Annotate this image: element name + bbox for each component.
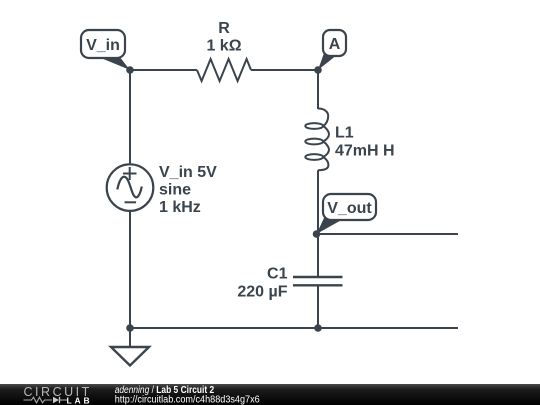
voltage source V_in value label	[159, 164, 217, 216]
voltage source V_in	[107, 164, 154, 211]
CircuitLab logo	[24, 385, 91, 405]
junction capacitor bottom node	[314, 324, 322, 332]
svg-text:L1: L1	[335, 125, 354, 142]
resistor R value label	[206, 20, 241, 55]
footer title	[115, 385, 260, 405]
svg-text:http://circuitlab.com/c4h88d3s: http://circuitlab.com/c4h88d3s4g7x6	[115, 395, 260, 405]
wire right vertical: inductor to V_out node	[317, 170, 319, 234]
wire top right: resistor to node A	[251, 69, 318, 71]
svg-text:V_in 5V: V_in 5V	[159, 164, 217, 181]
wire left vertical: voltage source to ground node	[129, 211, 131, 328]
capacitor C1	[293, 277, 343, 285]
junction V_in node	[126, 66, 134, 74]
inductor L1 value label	[335, 125, 395, 160]
svg-text:220 µF: 220 µF	[237, 284, 287, 301]
node V_out flag	[317, 194, 377, 234]
node V_in flag	[81, 30, 130, 70]
wire left vertical: V_in node to voltage source	[129, 70, 131, 165]
svg-text:1 kΩ: 1 kΩ	[206, 38, 241, 55]
footer bar	[0, 384, 540, 405]
svg-text:V_in: V_in	[86, 37, 120, 54]
capacitor C1 value label	[237, 266, 287, 301]
svg-text:1 kHz: 1 kHz	[159, 199, 201, 216]
svg-text:C1: C1	[267, 266, 288, 283]
wire right vertical: node A to inductor	[317, 70, 319, 109]
inductor L1	[305, 109, 329, 171]
svg-text:sine: sine	[159, 182, 191, 199]
svg-text:LAB: LAB	[67, 395, 91, 405]
svg-text:V_out: V_out	[327, 200, 372, 217]
wire V_out horizontal	[317, 233, 458, 235]
wire bottom horizontal	[130, 327, 458, 329]
wire top left: V_in node to resistor	[130, 69, 197, 71]
junction V_out node	[313, 230, 321, 238]
svg-text:R: R	[218, 20, 230, 37]
node A flag	[318, 30, 346, 70]
wire right vertical: capacitor to bottom wire	[317, 286, 319, 328]
wire right vertical: V_out node to capacitor	[317, 234, 319, 277]
junction ground node	[126, 324, 134, 332]
ground	[111, 328, 149, 366]
resistor R	[197, 59, 251, 81]
svg-text:47mH H: 47mH H	[335, 143, 395, 160]
svg-text:A: A	[329, 36, 341, 53]
junction A node	[314, 66, 322, 74]
